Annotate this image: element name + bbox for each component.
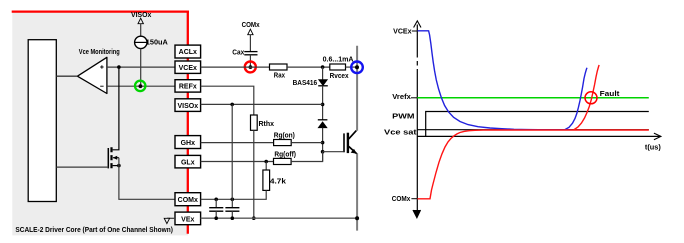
node junction dot gate wire tee xyxy=(321,150,325,154)
svg-text:REFx: REFx xyxy=(179,84,197,91)
pin box VISOx xyxy=(175,99,201,112)
svg-text:t(us): t(us) xyxy=(645,142,661,151)
svg-text:VEx: VEx xyxy=(181,216,194,223)
wire diode rail middle xyxy=(322,86,324,120)
svg-text:COMx: COMx xyxy=(242,22,260,29)
transistor Q1 MOSFET gate bar xyxy=(107,148,109,168)
op-amp plus mark xyxy=(100,65,103,68)
node junction dot cap2 bottom xyxy=(231,216,235,220)
node junction dot MOSFET source xyxy=(117,164,121,168)
wire 4.7k bottom to COMx wire xyxy=(201,190,267,199)
blue VCEx trace turn-off rise xyxy=(565,68,588,130)
wire MOSFET mid-source vertical to COMx xyxy=(119,158,175,200)
wire GLx to Rg(off) xyxy=(201,161,274,163)
blue VCEx trace decay and flat xyxy=(418,31,572,130)
wire REFx to Rthx rail xyxy=(201,86,254,115)
wire diode rail lower xyxy=(322,128,324,162)
svg-text:150uA: 150uA xyxy=(146,40,168,47)
pin box COMx xyxy=(175,193,201,206)
pin box VEx xyxy=(175,212,201,225)
wire VCEx box to Rax xyxy=(201,66,270,68)
diode D1 BAS416 xyxy=(318,80,328,86)
resistor Rax xyxy=(270,64,288,70)
transistor Q1 MOSFET source stub xyxy=(113,165,119,167)
wire GHx to Rg(on) xyxy=(201,142,274,144)
wire Rax to Rvcex xyxy=(287,66,330,68)
COMx terminal arrow up xyxy=(248,29,253,35)
pin box GLx xyxy=(175,155,201,168)
fault highlight red circle xyxy=(585,92,597,104)
current source I1 150uA xyxy=(135,36,147,48)
driver core gray panel xyxy=(12,12,188,236)
node junction dot diode top on VCEx xyxy=(321,65,325,69)
VEx terminal arrow down xyxy=(164,218,169,223)
waveform time axis arrow xyxy=(654,133,661,140)
wire VEx line xyxy=(201,217,358,219)
node junction dot op-amp plus / MOSFET drain xyxy=(117,65,121,69)
IC block U1 xyxy=(28,40,56,202)
wire op-amp output to IC xyxy=(56,75,77,77)
node junction dot emitter on VEx xyxy=(355,216,359,220)
svg-text:ACLx: ACLx xyxy=(179,49,197,56)
svg-text:Cax: Cax xyxy=(232,50,244,57)
wire VEx left stub xyxy=(167,217,175,219)
svg-text:Rthx: Rthx xyxy=(259,121,275,128)
svg-text:Rg(on): Rg(on) xyxy=(274,132,295,139)
node junction dot collector xyxy=(355,65,359,69)
svg-text:Vce Monitoring: Vce Monitoring xyxy=(79,49,120,56)
wire Rg(on) to node A xyxy=(291,142,322,144)
svg-text:0.6...1mA: 0.6...1mA xyxy=(323,56,354,63)
wire VISOx branch down to COMx wire xyxy=(231,104,233,199)
node junction dot VISOx/diode rail xyxy=(321,103,325,107)
svg-text:SCALE-2 Driver Core (Part of O: SCALE-2 Driver Core (Part of One Channel… xyxy=(15,227,173,234)
node red highlight circle on VCEx xyxy=(245,61,256,72)
tick VCEx xyxy=(412,30,418,32)
transistor Q2 IGBT channel bar xyxy=(347,133,349,153)
node junction dot cap2 top xyxy=(231,198,235,202)
svg-text:COMx: COMx xyxy=(178,197,198,204)
wire MOSFET drain vertical xyxy=(113,67,119,150)
resistor Rg(on) xyxy=(274,140,292,146)
node junction dot Rthx rail on VEx xyxy=(252,216,256,220)
wire diode rail upper xyxy=(322,67,324,80)
wire Rg(off) to riser xyxy=(291,152,323,162)
red border top xyxy=(12,10,189,12)
svg-text:Vrefx: Vrefx xyxy=(392,92,411,101)
wire 4.7k top stub xyxy=(265,162,267,171)
wire COMx arrow to Cax xyxy=(249,35,251,51)
tick Vrefx xyxy=(411,97,417,99)
transistor Q1 MOSFET channel segments xyxy=(110,147,112,168)
resistor Rg(off) xyxy=(274,158,292,164)
node junction dot cap1 top xyxy=(214,198,218,202)
diode D2 xyxy=(318,120,328,128)
svg-text:PWM: PWM xyxy=(392,112,414,121)
svg-text:VCEx: VCEx xyxy=(393,27,412,36)
wire VISOx line xyxy=(201,103,323,105)
transistor Q2 IGBT emitter diagonal with arrow xyxy=(349,146,357,153)
transistor Q2 IGBT gate bar xyxy=(343,133,345,152)
waveform axis bottom arrow xyxy=(413,210,421,218)
svg-text:4.7k: 4.7k xyxy=(270,176,287,185)
capacitor C2 xyxy=(225,199,239,218)
wire gate to IGBT xyxy=(323,151,344,153)
IGBT collector rail xyxy=(356,46,358,131)
wire IC to MOSFET gate xyxy=(56,166,108,168)
transistor Q1 MOSFET body arrow xyxy=(113,157,119,159)
node junction dot gate node A xyxy=(321,141,325,145)
tick COMx xyxy=(411,198,417,200)
waveform axis top arrow xyxy=(414,21,421,28)
svg-text:VCEx: VCEx xyxy=(179,65,197,72)
IGBT emitter rail xyxy=(356,153,358,231)
op-amp U2 comparator xyxy=(77,57,107,93)
svg-text:Rvcex: Rvcex xyxy=(330,73,349,80)
svg-text:VISOx: VISOx xyxy=(177,103,198,110)
svg-text:Fault: Fault xyxy=(600,89,620,98)
wire current source to REFx node xyxy=(140,49,142,87)
node junction dot Cax/VCEx xyxy=(249,65,253,69)
node blue highlight circle on collector xyxy=(351,62,363,74)
pin box REFx xyxy=(175,80,201,92)
svg-text:GLx: GLx xyxy=(181,159,195,166)
svg-text:Vce sat: Vce sat xyxy=(384,127,417,136)
svg-text:BAS416: BAS416 xyxy=(293,80,318,87)
waveform time axis xyxy=(417,135,660,137)
svg-text:GHx: GHx xyxy=(181,140,196,147)
capacitor Cax xyxy=(244,52,257,55)
resistor R 4.7k xyxy=(263,170,270,190)
resistor Rvcex xyxy=(330,64,346,70)
pin box ACLx xyxy=(175,45,201,58)
wire VCEx to op-amp plus input xyxy=(107,66,175,68)
node junction dot REFx / current source xyxy=(139,84,143,88)
svg-text:COMx: COMx xyxy=(392,194,411,203)
VISOx terminal arrow up xyxy=(138,18,143,24)
red COMx trace plateau rise and flat xyxy=(417,130,648,199)
red trace fault rise xyxy=(574,65,600,130)
waveform chart vertical axis xyxy=(416,25,418,54)
wire REFx to op-amp minus input xyxy=(107,85,175,87)
node green highlight circle on REFx xyxy=(135,81,145,91)
wire Rvcex to collector node xyxy=(346,66,358,68)
waveform axis dashed break xyxy=(416,53,418,70)
svg-text:VISOx: VISOx xyxy=(131,12,151,19)
pin box GHx xyxy=(175,136,201,149)
Vrefx green line xyxy=(417,97,649,99)
node junction dot 4.7k top on GLx xyxy=(264,160,268,164)
PWM trace xyxy=(426,112,649,137)
red border right xyxy=(187,11,189,234)
resistor Rthx xyxy=(251,115,258,130)
wire Cax to VCEx wire xyxy=(249,55,251,67)
node junction dot cap1 bottom xyxy=(214,216,218,220)
pin box VCEx xyxy=(175,61,201,73)
wire arrow to current source xyxy=(140,24,142,37)
op-amp minus mark xyxy=(100,85,103,87)
node junction dot VISOx branch xyxy=(230,103,234,107)
Vce sat level line xyxy=(417,129,649,131)
capacitor C1 xyxy=(209,199,223,218)
transistor Q2 IGBT collector diagonal xyxy=(349,131,357,139)
wire Rthx rail to VEx wire xyxy=(253,130,255,218)
svg-text:Rax: Rax xyxy=(274,73,285,80)
svg-text:Rg(off): Rg(off) xyxy=(274,151,296,158)
